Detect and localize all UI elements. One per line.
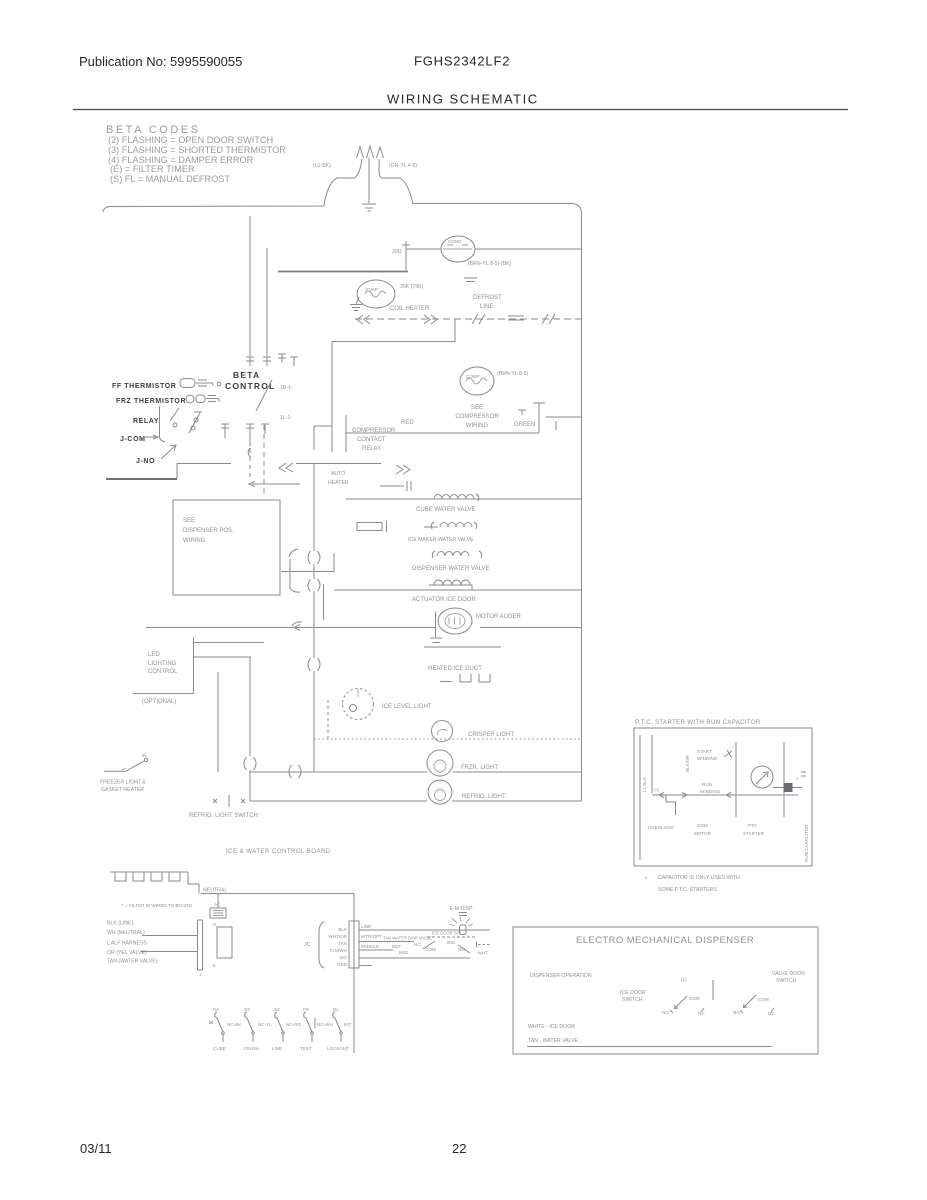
connector line mid — [281, 553, 334, 620]
svg-text:03/11: 03/11 — [80, 1141, 112, 1156]
switch refrigerator light — [213, 795, 245, 807]
svg-text:WIRING SCHEMATIC: WIRING SCHEMATIC — [387, 92, 539, 107]
wire right edge bus — [581, 213, 583, 801]
svg-text:WHT: WHT — [478, 951, 489, 956]
beta control lower pins — [221, 424, 269, 446]
svg-text:REFRIG. LIGHT: REFRIG. LIGHT — [462, 794, 506, 800]
lamp ice level light — [343, 689, 374, 720]
svg-text:86Ω: 86Ω — [447, 940, 455, 945]
connector P3 right — [349, 921, 359, 968]
svg-text:WHT/OR: WHT/OR — [328, 934, 347, 939]
svg-text:DISPENSER POS.: DISPENSER POS. — [183, 528, 234, 534]
switch bank FS — [304, 1012, 315, 1042]
svg-text:(BRN-YL 8-5): (BRN-YL 8-5) — [497, 371, 528, 377]
svg-text:COM: COM — [425, 947, 436, 952]
svg-text:LINE: LINE — [272, 1046, 282, 1051]
inline connector freezer wire — [244, 757, 256, 770]
svg-text:SWITCH: SWITCH — [622, 997, 643, 1003]
wire green to edge — [546, 416, 582, 418]
wire vertical main left bus — [313, 464, 315, 552]
overload protector — [666, 795, 676, 815]
wire relay coil junction — [249, 482, 300, 487]
svg-text:NC-RD: NC-RD — [286, 1022, 301, 1027]
solenoid cube water valve — [434, 494, 479, 501]
svg-text:STARTER: STARTER — [743, 831, 765, 836]
connector JC bracket — [319, 922, 324, 968]
svg-text:FREEZER LIGHT &: FREEZER LIGHT & — [100, 780, 146, 786]
svg-text:TAN - WATER VALVE: TAN - WATER VALVE — [528, 1038, 579, 1044]
svg-text:CONTROL: CONTROL — [148, 669, 178, 675]
svg-text:SWITCH: SWITCH — [776, 978, 797, 984]
svg-text:-2: -2 — [212, 922, 216, 927]
svg-text:MOTOR: MOTOR — [694, 831, 712, 836]
svg-text:CRUSH: CRUSH — [243, 1046, 259, 1051]
svg-text:GASKET HEATER: GASKET HEATER — [101, 787, 144, 793]
svg-text:IN: IN — [142, 753, 147, 758]
svg-text:RED: RED — [337, 962, 347, 967]
svg-text:ICE DOOR: ICE DOOR — [620, 990, 646, 996]
wire vio — [359, 957, 470, 959]
wire plug stem — [368, 158, 370, 203]
svg-text:OR (YEL VALVE): OR (YEL VALVE) — [107, 950, 147, 956]
svg-text:NC-WH: NC-WH — [317, 1022, 333, 1027]
lamp freezer light — [427, 750, 453, 776]
svg-text:1L-1·: 1L-1· — [280, 415, 292, 421]
svg-text:*: * — [645, 877, 648, 883]
wire vertical feed B — [266, 248, 268, 356]
svg-text:RED: RED — [401, 420, 414, 426]
brace left segment — [103, 205, 324, 212]
svg-text:WTR/OPT: WTR/OPT — [361, 934, 382, 939]
motor M ptc — [751, 766, 773, 788]
svg-text:COMP: COMP — [466, 374, 480, 379]
svg-text:TEST: TEST — [300, 1046, 312, 1051]
svg-text:WH (NEUTRAL): WH (NEUTRAL) — [107, 930, 145, 936]
svg-text:PTC: PTC — [748, 823, 758, 828]
svg-text:NC-YL: NC-YL — [258, 1022, 272, 1027]
svg-text:TAN/WH: TAN/WH — [329, 948, 347, 953]
wire run branch — [783, 742, 785, 817]
wire dispenser line — [359, 929, 490, 931]
wire water valve bus — [346, 498, 582, 500]
wire lamp feed A — [249, 657, 251, 756]
svg-text:LINE: LINE — [361, 924, 371, 929]
svg-text:CAPACITOR IS ONLY USED WITH: CAPACITOR IS ONLY USED WITH — [658, 875, 740, 881]
svg-text:OVERLOAD: OVERLOAD — [648, 825, 674, 830]
svg-text:REF: REF — [392, 944, 401, 949]
title rule — [73, 109, 848, 111]
wire cond fan to right edge — [475, 248, 582, 250]
beta control pins — [246, 354, 298, 366]
motor evaporator fan — [357, 280, 395, 308]
svg-text:SOME P.T.C. STARTERS: SOME P.T.C. STARTERS — [658, 887, 717, 893]
svg-text:HEATER: HEATER — [328, 480, 349, 486]
defrost thermostat plate — [464, 278, 477, 282]
svg-text:BLK/OR: BLK/OR — [685, 754, 690, 772]
wire lamp feed B — [217, 672, 219, 772]
wire contact to compressor — [346, 432, 539, 434]
svg-text:ICE & WATER CONTROL BOARD: ICE & WATER CONTROL BOARD — [226, 849, 331, 855]
brace vase around plug — [324, 159, 362, 205]
motor compressor — [460, 367, 494, 395]
wire heavy bus — [278, 271, 408, 273]
inline connector on bus — [308, 551, 320, 564]
wire compressor drop — [538, 403, 540, 433]
svg-text:TAN (WATER VALVE): TAN (WATER VALVE) — [107, 959, 158, 965]
beta codes legend — [106, 124, 286, 184]
svg-text:EVAP: EVAP — [366, 287, 378, 292]
svg-text:NO: NO — [662, 1010, 669, 1015]
svg-text:VIO: VIO — [339, 955, 347, 960]
wire lower bus — [334, 589, 582, 591]
svg-text:P.T.C. STARTER WITH RUN CAPACI: P.T.C. STARTER WITH RUN CAPACITOR — [635, 720, 761, 726]
wire to relay contact riser — [296, 463, 314, 465]
ptc starter box — [634, 728, 812, 866]
svg-text:COIL HEATER: COIL HEATER — [390, 306, 430, 312]
ground symbol main — [362, 204, 376, 211]
svg-text:WIRING: WIRING — [466, 423, 489, 429]
svg-text:ICE DOOR SOL: ICE DOOR SOL — [432, 931, 463, 936]
svg-text:COM: COM — [697, 823, 708, 828]
svg-text:(1): (1) — [681, 977, 687, 982]
wire red stub — [359, 965, 372, 967]
svg-text:CONTROL: CONTROL — [225, 381, 275, 391]
svg-text:L ALF HARNESS: L ALF HARNESS — [107, 941, 147, 947]
svg-text:1B-1·: 1B-1· — [280, 385, 293, 391]
wire freezer light bus — [250, 771, 427, 773]
svg-text:(S) FL = MANUAL DEFROST: (S) FL = MANUAL DEFROST — [110, 174, 230, 184]
svg-text:S3: S3 — [244, 1007, 250, 1012]
dispenser box E-M — [513, 927, 818, 1054]
svg-text:CUBE: CUBE — [213, 1046, 226, 1051]
wire auto box top — [314, 463, 381, 465]
svg-text:TAN: TAN — [338, 941, 347, 946]
svg-text:(2): (2) — [654, 787, 660, 792]
svg-text:MOTOR AUGER: MOTOR AUGER — [476, 614, 522, 620]
dispenser board box — [173, 500, 280, 595]
ground evap — [350, 297, 362, 311]
wire defrost feed down — [332, 319, 455, 415]
svg-text:E-M DISP: E-M DISP — [450, 906, 474, 912]
wire J-NO staircase — [106, 478, 177, 480]
solenoid ice maker water valve — [424, 522, 477, 529]
svg-text:Publication No: 5995590055: Publication No: 5995590055 — [79, 54, 242, 69]
svg-text:20Ω: 20Ω — [392, 249, 402, 255]
svg-text:VALVE DOOR: VALVE DOOR — [772, 971, 805, 977]
svg-text:FRZ THERMISTOR: FRZ THERMISTOR — [116, 398, 186, 405]
solenoid actuator ice door — [429, 585, 472, 590]
svg-text:1: 1 — [199, 972, 202, 977]
svg-text:20K (75K): 20K (75K) — [400, 284, 424, 290]
wire paddle — [359, 949, 393, 951]
svg-text:HEATED ICE DUCT: HEATED ICE DUCT — [428, 666, 482, 672]
connector chevrons J-NO wire — [279, 463, 293, 472]
svg-text:RUN CAPACITOR: RUN CAPACITOR — [804, 824, 809, 862]
svg-text:CONTACT: CONTACT — [357, 437, 386, 443]
svg-text:RUN: RUN — [702, 782, 712, 787]
wire defrost dashed — [355, 318, 582, 320]
svg-text:CRISPER LIGHT: CRISPER LIGHT — [468, 732, 514, 738]
svg-text:INT: INT — [344, 1022, 352, 1027]
svg-text:LIGHTING: LIGHTING — [148, 661, 177, 667]
filter AC block — [217, 894, 219, 909]
svg-text:WINDING: WINDING — [700, 789, 721, 794]
svg-text:J-NO: J-NO — [136, 458, 155, 465]
capacitor run — [773, 787, 802, 789]
svg-text:WINDING: WINDING — [697, 756, 718, 761]
svg-text:JC: JC — [304, 942, 311, 948]
wire right drop — [353, 894, 355, 1054]
svg-text:DEFROST: DEFROST — [473, 295, 502, 301]
svg-text:WHITE - ICE DOOR: WHITE - ICE DOOR — [528, 1024, 575, 1030]
svg-text:(L1-BK): (L1-BK) — [313, 163, 331, 169]
svg-text:b: b — [213, 963, 216, 968]
svg-text:WIRING: WIRING — [183, 538, 206, 544]
svg-text:DISPENSER OPERATION: DISPENSER OPERATION — [530, 973, 592, 979]
svg-text:J-COM: J-COM — [120, 436, 146, 443]
switch bank DL — [333, 1012, 343, 1042]
connector comb J1 — [110, 872, 199, 894]
wire heater stub — [424, 646, 501, 648]
svg-text:ICE LEVEL LIGHT: ICE LEVEL LIGHT — [382, 704, 432, 710]
svg-text:ICE MAKER WATER VALVE: ICE MAKER WATER VALVE — [408, 537, 474, 543]
svg-text:PADDLE: PADDLE — [361, 944, 379, 949]
svg-text:SEE: SEE — [471, 405, 483, 411]
wire start branch — [735, 742, 737, 817]
wire neutral bus — [201, 893, 354, 895]
wire crisper dotted bus — [314, 738, 582, 740]
svg-text:22: 22 — [452, 1141, 466, 1156]
svg-text:(BRN-YL 8-5)-(BK): (BRN-YL 8-5)-(BK) — [468, 261, 512, 267]
svg-text:FS: FS — [303, 1007, 309, 1012]
connector chevrons on defrost line — [357, 314, 555, 324]
resistor 20 ohm — [402, 241, 410, 270]
wire refrig light bus — [250, 800, 427, 802]
switch bank S3 — [245, 1012, 255, 1042]
lighting control wires — [133, 637, 264, 694]
svg-text:BLK: BLK — [338, 927, 348, 932]
bus bar L1 — [639, 735, 641, 860]
svg-text:ELECTRO MECHANICAL DISPENSER: ELECTRO MECHANICAL DISPENSER — [576, 935, 754, 946]
switch freezer light — [104, 770, 125, 772]
svg-text:(E) = FILTER TIMER: (E) = FILTER TIMER — [110, 164, 195, 174]
svg-text:LINE: LINE — [480, 304, 493, 310]
damper contact — [380, 481, 411, 491]
wire ice level dashed — [327, 700, 329, 739]
power plug P1 — [357, 146, 384, 158]
svg-text:DL: DL — [333, 1007, 339, 1012]
svg-text:(GN-YL 4-5): (GN-YL 4-5) — [389, 163, 417, 169]
svg-text:* = FILTER IS WIRED TO BOARD: * = FILTER IS WIRED TO BOARD — [122, 903, 192, 908]
ground mark — [518, 410, 526, 415]
switch bank S2 — [275, 1012, 285, 1042]
wire vertical feed A — [249, 216, 251, 356]
svg-text:COND: COND — [448, 239, 462, 244]
svg-text:(2) FLASHING = OPEN DOOR SWITC: (2) FLASHING = OPEN DOOR SWITCH — [108, 135, 273, 145]
switch arm diagonal — [256, 380, 272, 411]
motor condenser fan — [441, 236, 475, 262]
svg-text:L1 BLK: L1 BLK — [642, 776, 647, 792]
wire resistor to cond fan — [406, 248, 441, 250]
switch bank S4 — [209, 1012, 224, 1042]
svg-text:(OPTIONAL): (OPTIONAL) — [142, 699, 176, 705]
pin labels P3 — [328, 927, 348, 967]
svg-text:BETA: BETA — [233, 370, 260, 380]
relay contact bars — [332, 415, 346, 452]
svg-text:NEUTRAL: NEUTRAL — [203, 888, 227, 894]
solenoid dispenser water valve — [432, 551, 481, 558]
wire dispenser box bottom — [527, 1046, 772, 1048]
lamp crisper light — [432, 721, 453, 742]
svg-text:NO: NO — [733, 1010, 740, 1015]
svg-text:FRZR. LIGHT: FRZR. LIGHT — [461, 765, 498, 771]
motor auger — [438, 608, 472, 634]
svg-text:NC-BK: NC-BK — [227, 1022, 242, 1027]
svg-text:S2: S2 — [274, 1007, 280, 1012]
ground auger — [430, 612, 442, 643]
wire ptc main — [652, 794, 798, 796]
brace right segment with corner — [413, 204, 582, 215]
svg-text:*: * — [796, 778, 799, 784]
wire relay coil dashed — [263, 425, 265, 494]
svg-text:CUBE WATER VALVE: CUBE WATER VALVE — [416, 507, 475, 513]
svg-text:AUTO: AUTO — [331, 471, 345, 477]
lamp refrigerator light — [428, 780, 452, 804]
svg-text:RELAY: RELAY — [362, 446, 381, 452]
svg-text:ACTUATOR ICE DOOR: ACTUATOR ICE DOOR — [412, 597, 476, 603]
svg-text:REFRIG. LIGHT SWITCH: REFRIG. LIGHT SWITCH — [189, 813, 258, 819]
svg-text:AC: AC — [214, 902, 221, 907]
svg-text:S4: S4 — [213, 1007, 219, 1012]
svg-text:GREEN: GREEN — [514, 422, 535, 428]
svg-text:(3) FLASHING = SHORTED THERMIS: (3) FLASHING = SHORTED THERMISTOR — [108, 145, 286, 155]
svg-text:BLK (LINE): BLK (LINE) — [107, 921, 134, 927]
wire contact left feed — [314, 426, 332, 450]
connector P2 left — [198, 920, 203, 970]
svg-text:FF THERMISTOR: FF THERMISTOR — [112, 383, 176, 390]
fill switch block — [357, 523, 382, 531]
svg-text:DISPENSER WATER VALVE: DISPENSER WATER VALVE — [412, 566, 489, 572]
svg-text:START: START — [697, 749, 712, 754]
svg-text:LOCKOUT: LOCKOUT — [327, 1046, 349, 1051]
svg-text:NC: NC — [414, 942, 421, 947]
wire harness rows — [142, 935, 198, 937]
connector chevrons auto — [396, 465, 410, 474]
svg-text:RELAY: RELAY — [133, 418, 159, 425]
svg-text:160Ω: 160Ω — [398, 950, 408, 955]
svg-text:COMPRESSOR: COMPRESSOR — [455, 414, 499, 420]
svg-text:TAN WATER DISP VALVE: TAN WATER DISP VALVE — [383, 936, 432, 941]
svg-text:FGHS2342LF2: FGHS2342LF2 — [414, 54, 510, 69]
svg-text:COM: COM — [758, 997, 769, 1002]
svg-text:COM: COM — [689, 996, 700, 1001]
svg-text:SEE: SEE — [183, 518, 195, 524]
wire auger bus — [146, 627, 435, 629]
svg-text:LED: LED — [148, 652, 160, 658]
